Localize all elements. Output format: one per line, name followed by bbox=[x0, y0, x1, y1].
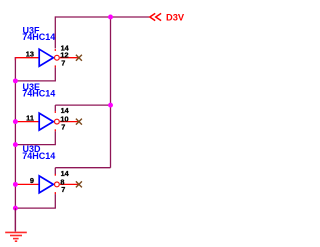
svg-text:13: 13 bbox=[26, 49, 34, 58]
svg-text:74HC14: 74HC14 bbox=[22, 89, 55, 99]
svg-text:11: 11 bbox=[26, 113, 34, 122]
svg-text:74HC14: 74HC14 bbox=[22, 151, 55, 161]
svg-text:7: 7 bbox=[61, 58, 65, 67]
svg-text:7: 7 bbox=[61, 185, 65, 194]
svg-text:D3V: D3V bbox=[166, 12, 185, 22]
svg-text:74HC14: 74HC14 bbox=[22, 32, 55, 42]
svg-text:7: 7 bbox=[61, 122, 65, 131]
svg-text:9: 9 bbox=[30, 176, 34, 185]
